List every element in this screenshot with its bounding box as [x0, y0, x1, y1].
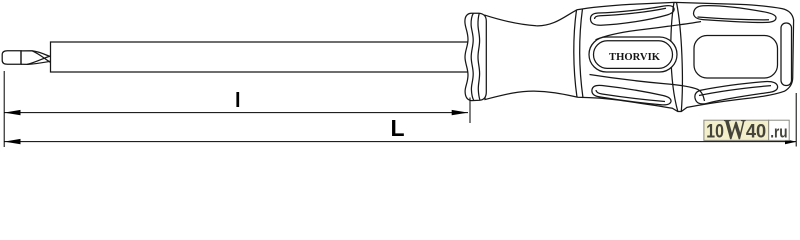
rear section middle band [694, 36, 778, 79]
shaft [51, 42, 471, 72]
arrow l left [4, 110, 20, 115]
neck crease line b [580, 9, 583, 98]
mid section bottom inset outer [592, 85, 671, 105]
handle ferrule [465, 13, 486, 100]
handle body silhouette [485, 2, 794, 111]
blade taper lower line [21, 61, 51, 64]
rear section bottom inset outer [695, 82, 778, 104]
blade taper upper line [21, 51, 51, 57]
svg-text:l: l [235, 90, 241, 112]
arrow l right [452, 110, 468, 115]
blade wedge cross line lower [32, 51, 51, 63]
extension line shaft end [469, 98, 471, 124]
arrow L left [4, 139, 20, 144]
dimension line l [4, 112, 468, 114]
waist crease line b [677, 2, 683, 111]
blade wedge cross line upper [27, 56, 51, 64]
mid section top inset outer [590, 6, 674, 26]
mid section bottom inset inner line [596, 90, 665, 102]
svg-text:10: 10 [706, 120, 724, 142]
waist crease line a [671, 2, 678, 111]
svg-text:.ru: .ru [770, 122, 787, 141]
ferrule inner contour 2 [478, 13, 480, 100]
grip band top sweep line [596, 22, 702, 40]
rear section top inset outer [694, 6, 777, 23]
THORVIK badge outer [589, 37, 677, 72]
mid section top inset inner line [595, 8, 667, 19]
svg-text:THORVIK: THORVIK [609, 51, 660, 63]
tip cap divider [20, 51, 22, 65]
grip band bottom sweep line [590, 75, 705, 102]
arrow L right [785, 139, 797, 144]
watermark logo 10W40.ru box cream [704, 120, 769, 140]
ferrule inner contour 1 [471, 13, 474, 100]
svg-text:40: 40 [746, 120, 766, 142]
rear section top inset inner line [698, 17, 770, 20]
THORVIK badge inner [594, 41, 673, 69]
cap inner panel [781, 23, 792, 86]
extension line handle end [795, 93, 797, 147]
neck crease line a [574, 10, 577, 97]
tip cap [2, 51, 21, 65]
watermark logo ru box white [769, 120, 790, 140]
extension line left [3, 71, 5, 147]
svg-text:L: L [391, 115, 405, 141]
rear section bottom inset inner line [699, 86, 771, 96]
dimension line L [4, 141, 796, 143]
svg-text:W: W [724, 115, 746, 146]
